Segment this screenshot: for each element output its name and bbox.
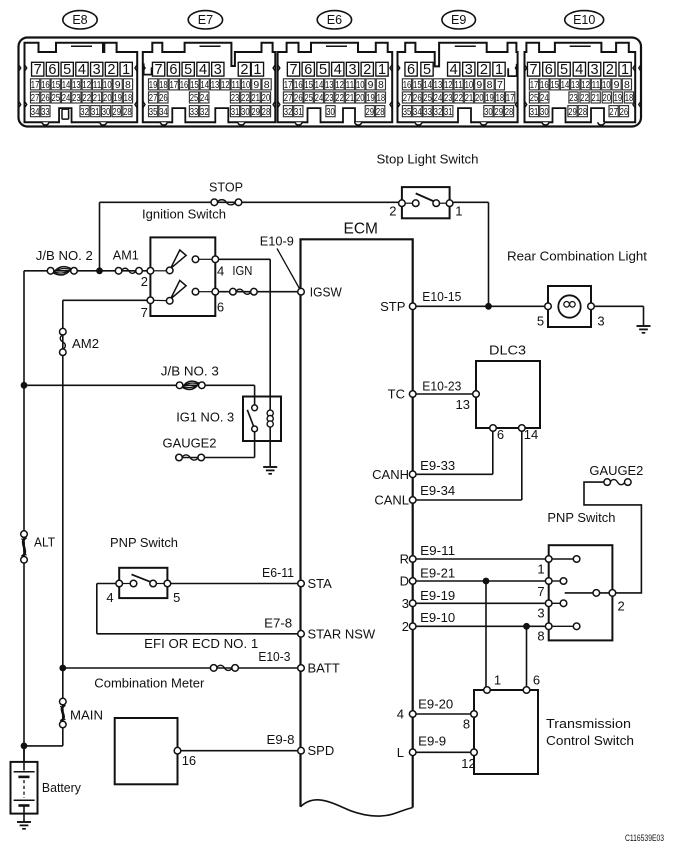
svg-text:15: 15 [304, 79, 313, 91]
svg-text:4: 4 [334, 62, 342, 78]
svg-text:32: 32 [434, 106, 443, 118]
svg-text:2: 2 [402, 619, 409, 634]
svg-text:23: 23 [325, 92, 334, 104]
svg-text:20: 20 [475, 92, 484, 104]
svg-text:26: 26 [41, 92, 50, 104]
svg-text:E6: E6 [327, 13, 342, 27]
svg-text:E10-3: E10-3 [258, 649, 290, 664]
svg-text:5: 5 [173, 590, 180, 605]
svg-text:4: 4 [78, 62, 86, 78]
svg-text:25: 25 [190, 92, 199, 104]
svg-text:CANL: CANL [374, 493, 409, 508]
svg-text:10: 10 [356, 79, 365, 91]
svg-text:E9-9: E9-9 [418, 734, 446, 749]
svg-text:4: 4 [575, 62, 583, 78]
svg-text:7: 7 [141, 305, 148, 320]
svg-text:31: 31 [530, 106, 539, 118]
svg-text:R: R [400, 552, 409, 567]
svg-text:BATT: BATT [308, 661, 340, 676]
svg-text:AM1: AM1 [113, 248, 139, 263]
svg-text:18: 18 [496, 92, 505, 104]
svg-text:21: 21 [346, 92, 355, 104]
svg-text:9: 9 [614, 79, 620, 91]
svg-text:13: 13 [211, 79, 220, 91]
svg-text:2: 2 [107, 62, 115, 78]
svg-text:2: 2 [240, 62, 248, 78]
svg-text:25: 25 [304, 92, 313, 104]
svg-text:2: 2 [618, 599, 625, 614]
svg-text:22: 22 [454, 92, 463, 104]
svg-text:E6-11: E6-11 [262, 565, 294, 580]
svg-text:Transmission: Transmission [546, 716, 631, 731]
svg-text:27: 27 [149, 92, 158, 104]
svg-text:CANH: CANH [372, 467, 409, 482]
svg-text:33: 33 [41, 106, 50, 118]
svg-text:E9-20: E9-20 [418, 697, 453, 712]
svg-text:7: 7 [34, 62, 42, 78]
svg-text:6: 6 [407, 62, 415, 78]
svg-text:22: 22 [241, 92, 250, 104]
svg-text:STOP: STOP [209, 180, 243, 195]
svg-text:23: 23 [72, 92, 81, 104]
svg-text:7: 7 [537, 584, 544, 599]
svg-text:22: 22 [82, 92, 91, 104]
svg-text:29: 29 [251, 106, 260, 118]
svg-text:6: 6 [497, 427, 504, 442]
svg-text:MAIN: MAIN [70, 708, 103, 723]
svg-text:3: 3 [93, 62, 101, 78]
svg-text:1: 1 [122, 62, 130, 78]
svg-text:5: 5 [319, 62, 327, 78]
svg-text:5: 5 [63, 62, 71, 78]
svg-text:32: 32 [284, 106, 293, 118]
svg-text:PNP Switch: PNP Switch [110, 535, 178, 550]
svg-text:C116539E03: C116539E03 [625, 833, 664, 843]
svg-text:E9-11: E9-11 [420, 543, 455, 558]
svg-text:IGSW: IGSW [310, 284, 343, 299]
svg-text:EFI OR ECD NO. 1: EFI OR ECD NO. 1 [144, 636, 258, 651]
svg-text:1: 1 [494, 672, 501, 687]
svg-text:1: 1 [621, 62, 629, 78]
svg-text:16: 16 [182, 753, 196, 768]
svg-text:20: 20 [262, 92, 271, 104]
svg-text:21: 21 [591, 92, 600, 104]
svg-text:25: 25 [423, 92, 432, 104]
svg-text:17: 17 [284, 79, 293, 91]
svg-text:J/B NO. 2: J/B NO. 2 [36, 248, 93, 263]
svg-text:32: 32 [80, 106, 89, 118]
svg-text:16: 16 [403, 79, 412, 91]
svg-text:14: 14 [561, 79, 570, 91]
svg-text:34: 34 [159, 106, 168, 118]
svg-text:29: 29 [366, 106, 375, 118]
svg-text:E9: E9 [451, 13, 466, 27]
svg-text:11: 11 [346, 79, 355, 91]
svg-text:29: 29 [568, 106, 577, 118]
svg-text:24: 24 [200, 92, 209, 104]
svg-text:2: 2 [480, 62, 488, 78]
svg-text:21: 21 [465, 92, 474, 104]
svg-text:1: 1 [253, 62, 261, 78]
svg-text:E9-8: E9-8 [267, 732, 295, 747]
svg-text:26: 26 [413, 92, 422, 104]
svg-text:6: 6 [48, 62, 56, 78]
svg-text:28: 28 [505, 106, 514, 118]
svg-text:9: 9 [253, 79, 259, 91]
svg-text:35: 35 [403, 106, 412, 118]
svg-text:23: 23 [569, 92, 578, 104]
svg-text:29: 29 [112, 106, 121, 118]
svg-text:6: 6 [545, 62, 553, 78]
svg-text:31: 31 [444, 106, 453, 118]
svg-text:14: 14 [62, 79, 71, 91]
svg-text:12: 12 [221, 79, 230, 91]
svg-text:28: 28 [262, 106, 271, 118]
svg-text:E9-33: E9-33 [420, 458, 455, 473]
svg-text:18: 18 [124, 92, 133, 104]
svg-text:15: 15 [413, 79, 422, 91]
svg-text:STP: STP [380, 299, 405, 314]
svg-text:9: 9 [476, 79, 482, 91]
svg-text:35: 35 [149, 106, 158, 118]
svg-text:24: 24 [315, 92, 324, 104]
svg-text:17: 17 [506, 92, 515, 104]
svg-text:6: 6 [304, 62, 312, 78]
svg-text:11: 11 [93, 79, 102, 91]
svg-text:3: 3 [465, 62, 473, 78]
svg-text:1: 1 [495, 62, 503, 78]
svg-text:13: 13 [571, 79, 580, 91]
svg-text:12: 12 [461, 756, 475, 771]
svg-text:4: 4 [217, 264, 224, 279]
svg-text:4: 4 [106, 590, 113, 605]
svg-text:E10-23: E10-23 [422, 379, 461, 394]
svg-text:14: 14 [423, 79, 432, 91]
svg-text:11: 11 [592, 79, 601, 91]
svg-text:20: 20 [356, 92, 365, 104]
svg-text:D: D [400, 574, 409, 589]
svg-text:16: 16 [540, 79, 549, 91]
svg-text:IGN: IGN [232, 263, 252, 278]
svg-text:27: 27 [403, 92, 412, 104]
svg-text:E10-9: E10-9 [260, 234, 294, 249]
svg-text:Control Switch: Control Switch [546, 733, 634, 748]
svg-text:22: 22 [335, 92, 344, 104]
svg-text:13: 13 [456, 397, 470, 412]
svg-text:15: 15 [190, 79, 199, 91]
svg-text:STA: STA [308, 576, 333, 591]
svg-text:30: 30 [102, 106, 111, 118]
svg-text:1: 1 [455, 204, 462, 219]
svg-text:30: 30 [241, 106, 250, 118]
svg-text:31: 31 [294, 106, 303, 118]
svg-text:32: 32 [200, 106, 209, 118]
svg-text:34: 34 [413, 106, 422, 118]
svg-text:DLC3: DLC3 [489, 343, 526, 358]
svg-text:E7-8: E7-8 [264, 615, 292, 630]
svg-text:13: 13 [325, 79, 334, 91]
svg-text:1: 1 [537, 561, 544, 576]
svg-text:3: 3 [591, 62, 599, 78]
svg-text:6: 6 [217, 299, 224, 314]
svg-text:5: 5 [423, 62, 431, 78]
svg-text:8: 8 [378, 79, 384, 91]
svg-text:26: 26 [620, 106, 629, 118]
svg-text:3: 3 [597, 314, 604, 329]
svg-text:8: 8 [264, 79, 270, 91]
svg-text:8: 8 [125, 79, 131, 91]
svg-text:27: 27 [284, 92, 293, 104]
svg-text:TC: TC [388, 387, 405, 402]
svg-text:18: 18 [377, 92, 386, 104]
svg-text:26: 26 [294, 92, 303, 104]
svg-text:17: 17 [31, 79, 40, 91]
svg-text:18: 18 [625, 92, 634, 104]
svg-text:12: 12 [581, 79, 590, 91]
svg-text:2: 2 [363, 62, 371, 78]
svg-text:Rear Combination Light: Rear Combination Light [507, 248, 647, 263]
svg-text:14: 14 [200, 79, 209, 91]
svg-text:10: 10 [242, 79, 251, 91]
svg-text:8: 8 [537, 628, 544, 643]
svg-text:18: 18 [159, 79, 168, 91]
svg-text:E9-10: E9-10 [420, 610, 455, 625]
svg-text:16: 16 [180, 79, 189, 91]
svg-text:5: 5 [537, 314, 544, 329]
svg-text:2: 2 [606, 62, 614, 78]
svg-text:20: 20 [603, 92, 612, 104]
svg-text:5: 5 [184, 62, 192, 78]
svg-text:SPD: SPD [308, 743, 335, 758]
svg-text:GAUGE2: GAUGE2 [589, 463, 643, 478]
svg-text:21: 21 [93, 92, 102, 104]
svg-text:12: 12 [82, 79, 91, 91]
svg-text:L: L [397, 745, 404, 760]
svg-text:J/B NO. 3: J/B NO. 3 [161, 364, 219, 379]
svg-text:AM2: AM2 [72, 336, 99, 351]
svg-text:24: 24 [434, 92, 443, 104]
svg-text:8: 8 [624, 79, 630, 91]
svg-text:17: 17 [169, 79, 178, 91]
svg-text:21: 21 [251, 92, 260, 104]
svg-text:31: 31 [231, 106, 240, 118]
svg-text:28: 28 [579, 106, 588, 118]
svg-text:9: 9 [115, 79, 121, 91]
svg-text:E9-34: E9-34 [420, 483, 455, 498]
svg-text:29: 29 [494, 106, 503, 118]
svg-text:24: 24 [62, 92, 71, 104]
svg-text:Stop Light Switch: Stop Light Switch [377, 152, 479, 167]
svg-text:16: 16 [41, 79, 50, 91]
svg-text:IG1 NO. 3: IG1 NO. 3 [176, 410, 234, 425]
svg-text:ALT: ALT [34, 535, 55, 550]
svg-text:5: 5 [560, 62, 568, 78]
svg-text:28: 28 [123, 106, 132, 118]
svg-text:27: 27 [31, 92, 40, 104]
svg-text:19: 19 [149, 79, 158, 91]
svg-text:33: 33 [423, 106, 432, 118]
svg-text:16: 16 [294, 79, 303, 91]
svg-text:4: 4 [450, 62, 458, 78]
svg-text:8: 8 [463, 717, 470, 732]
svg-text:8: 8 [487, 79, 493, 91]
svg-text:3: 3 [402, 596, 409, 611]
svg-text:E9-21: E9-21 [420, 566, 455, 581]
svg-text:15: 15 [550, 79, 559, 91]
svg-text:23: 23 [231, 92, 240, 104]
svg-text:Ignition Switch: Ignition Switch [142, 207, 226, 222]
svg-text:STAR NSW: STAR NSW [308, 626, 376, 641]
svg-text:E7: E7 [198, 13, 213, 27]
svg-text:13: 13 [72, 79, 81, 91]
svg-text:1: 1 [378, 62, 386, 78]
svg-text:10: 10 [602, 79, 611, 91]
svg-text:27: 27 [609, 106, 618, 118]
svg-text:3: 3 [214, 62, 222, 78]
svg-text:2: 2 [389, 204, 396, 219]
svg-text:19: 19 [485, 92, 494, 104]
svg-text:GAUGE2: GAUGE2 [163, 435, 217, 450]
svg-text:7: 7 [497, 79, 503, 91]
svg-text:6: 6 [169, 62, 177, 78]
svg-text:7: 7 [155, 62, 163, 78]
svg-text:11: 11 [231, 79, 240, 91]
svg-text:15: 15 [51, 79, 60, 91]
svg-text:25: 25 [51, 92, 60, 104]
svg-text:ECM: ECM [344, 221, 378, 238]
svg-text:3: 3 [537, 605, 544, 620]
svg-text:34: 34 [31, 106, 40, 118]
svg-text:14: 14 [315, 79, 324, 91]
svg-text:19: 19 [614, 92, 623, 104]
svg-text:Battery: Battery [42, 780, 81, 795]
svg-text:20: 20 [103, 92, 112, 104]
svg-text:19: 19 [113, 92, 122, 104]
svg-text:14: 14 [524, 427, 538, 442]
svg-text:4: 4 [397, 707, 404, 722]
svg-text:10: 10 [465, 79, 474, 91]
svg-text:6: 6 [533, 672, 540, 687]
svg-text:9: 9 [368, 79, 374, 91]
svg-text:13: 13 [434, 79, 443, 91]
svg-text:12: 12 [444, 79, 453, 91]
svg-text:12: 12 [335, 79, 344, 91]
svg-text:7: 7 [530, 62, 538, 78]
svg-text:7: 7 [289, 62, 297, 78]
svg-text:Combination Meter: Combination Meter [94, 675, 205, 690]
svg-text:30: 30 [540, 106, 549, 118]
svg-text:11: 11 [454, 79, 463, 91]
svg-text:25: 25 [530, 92, 539, 104]
svg-text:23: 23 [444, 92, 453, 104]
svg-text:PNP Switch: PNP Switch [547, 510, 615, 525]
svg-text:2: 2 [141, 274, 148, 289]
svg-text:31: 31 [91, 106, 100, 118]
svg-text:28: 28 [376, 106, 385, 118]
svg-text:30: 30 [326, 106, 335, 118]
svg-text:4: 4 [199, 62, 207, 78]
svg-text:33: 33 [190, 106, 199, 118]
svg-text:24: 24 [540, 92, 549, 104]
svg-text:26: 26 [159, 92, 168, 104]
svg-text:30: 30 [484, 106, 493, 118]
svg-text:3: 3 [348, 62, 356, 78]
svg-text:E9-19: E9-19 [420, 588, 455, 603]
svg-text:E10: E10 [573, 13, 595, 27]
svg-text:E8: E8 [72, 13, 87, 27]
svg-text:10: 10 [103, 79, 112, 91]
svg-text:E10-15: E10-15 [422, 289, 461, 304]
svg-text:22: 22 [580, 92, 589, 104]
svg-text:17: 17 [530, 79, 539, 91]
svg-text:19: 19 [366, 92, 375, 104]
